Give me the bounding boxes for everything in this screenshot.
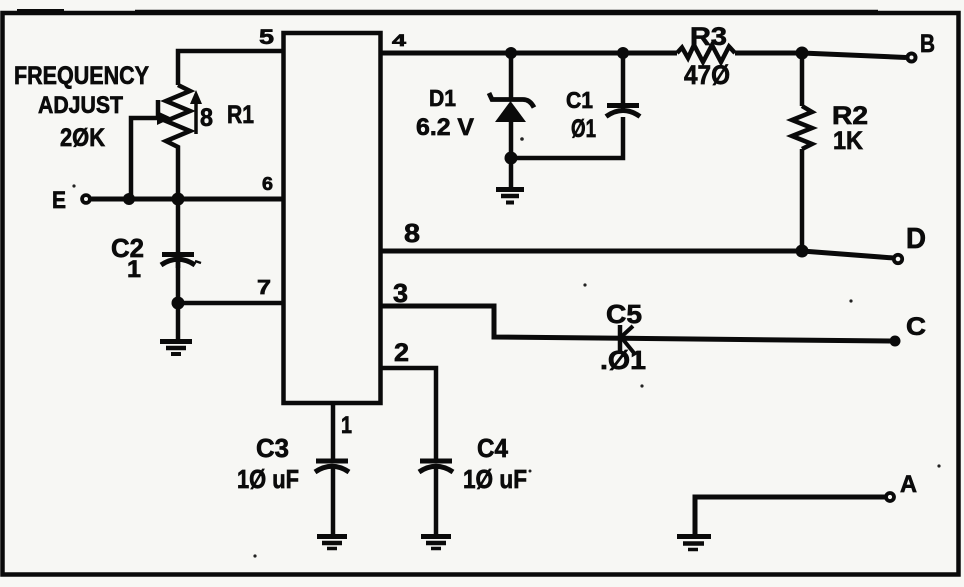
svg-text:7: 7 xyxy=(257,277,271,299)
svg-text:C3: C3 xyxy=(256,433,289,463)
wire pin4 xyxy=(380,53,906,58)
svg-text:47Ø: 47Ø xyxy=(684,60,730,90)
resistor R2 xyxy=(792,53,812,251)
ground under A wire xyxy=(677,537,711,550)
ground under C3 xyxy=(317,537,347,549)
svg-text:C1: C1 xyxy=(566,87,593,113)
junction wiper/E xyxy=(123,193,135,205)
wire C2 top xyxy=(176,199,181,268)
ground under C2 xyxy=(160,342,192,355)
junction R3/R2 xyxy=(796,47,809,60)
svg-text:R3: R3 xyxy=(690,23,727,51)
svg-text:B: B xyxy=(920,30,935,58)
svg-text:A: A xyxy=(900,471,917,498)
terminal C xyxy=(890,336,901,347)
svg-text:1: 1 xyxy=(341,412,352,439)
wire pin5 to top of R1 xyxy=(178,51,283,85)
frequency adjust label xyxy=(14,62,149,152)
capacitor C4 xyxy=(419,461,453,472)
ground under C4 xyxy=(421,537,451,549)
wire C4 bottom xyxy=(434,466,439,534)
terminal B xyxy=(908,54,916,62)
wire pin3 xyxy=(380,306,890,341)
terminal A xyxy=(886,493,894,501)
ic U1 xyxy=(284,33,381,403)
potentiometer R1 wiper arrow xyxy=(131,100,172,199)
svg-text:2ØK: 2ØK xyxy=(60,124,105,152)
terminal E xyxy=(82,195,90,203)
svg-text:1: 1 xyxy=(127,256,141,283)
svg-text:FREQUENCY: FREQUENCY xyxy=(14,62,149,90)
svg-text:R2: R2 xyxy=(832,102,868,130)
svg-text:1Ø uF: 1Ø uF xyxy=(237,464,299,494)
svg-text:ADJUST: ADJUST xyxy=(38,92,123,119)
svg-text:.Ø1: .Ø1 xyxy=(600,345,646,375)
wire D1 to C1 bottom xyxy=(511,117,623,158)
wire pin8 xyxy=(380,251,894,258)
svg-text:6: 6 xyxy=(262,174,273,194)
wire pin2 xyxy=(380,368,436,460)
svg-text:C4: C4 xyxy=(477,433,508,463)
svg-text:C5: C5 xyxy=(606,299,642,329)
capacitor C1 xyxy=(606,106,640,117)
wire C3 bottom xyxy=(331,466,336,534)
junction D1 bottom xyxy=(505,152,518,165)
ground under D1 xyxy=(496,190,524,203)
svg-text:4: 4 xyxy=(392,31,407,50)
capacitor C5 xyxy=(620,325,634,353)
svg-text:C: C xyxy=(906,313,926,341)
terminal D xyxy=(894,255,902,263)
svg-text:5: 5 xyxy=(259,26,274,49)
resistor R3 xyxy=(677,45,735,62)
wire pin1 xyxy=(331,403,336,460)
R1 adjust up-arrow xyxy=(190,90,202,134)
zener diode D1 xyxy=(489,53,534,187)
junction R1/C2 xyxy=(172,193,185,206)
svg-text:6.2 V: 6.2 V xyxy=(416,114,474,141)
capacitor C2 xyxy=(161,255,201,266)
wire pin7 xyxy=(178,301,283,306)
svg-text:2: 2 xyxy=(394,339,409,367)
capacitor C3 xyxy=(315,461,349,472)
svg-text:1K: 1K xyxy=(833,127,863,155)
potentiometer R1 body xyxy=(166,85,190,199)
svg-text:D1: D1 xyxy=(429,85,456,111)
svg-text:3: 3 xyxy=(393,278,408,308)
junction D1 top xyxy=(505,47,517,59)
wire terminal A to ground xyxy=(695,497,885,534)
wire C1 top xyxy=(621,53,626,112)
svg-text:1Ø uF: 1Ø uF xyxy=(463,464,527,494)
svg-text:E: E xyxy=(52,187,66,214)
svg-text:R1: R1 xyxy=(227,101,254,129)
junction C1 top xyxy=(617,47,629,59)
junction R2/pin8 xyxy=(796,245,809,258)
svg-text:D: D xyxy=(906,223,926,255)
svg-text:Ø1: Ø1 xyxy=(571,115,596,143)
svg-text:8: 8 xyxy=(200,104,213,132)
svg-text:8: 8 xyxy=(404,218,420,248)
wire C2 bottom xyxy=(176,262,181,339)
wire pin6 xyxy=(91,197,283,202)
junction pin7/C2 xyxy=(172,297,185,310)
